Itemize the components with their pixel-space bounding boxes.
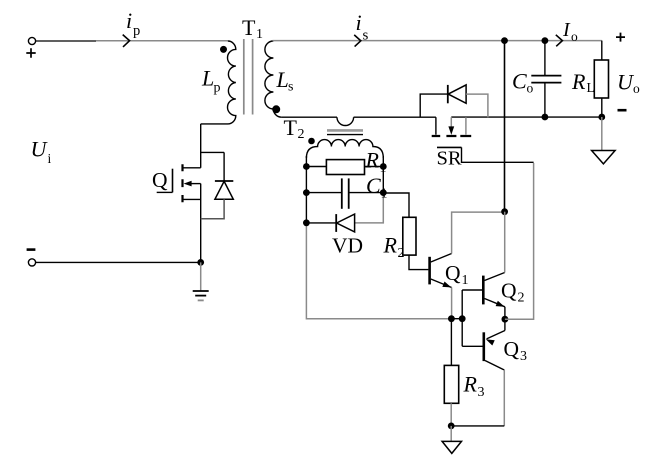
transistor Q2 — [462, 273, 505, 310]
label R2 — [383, 232, 405, 260]
wire input bottom — [36, 261, 201, 263]
transformer T2 core — [327, 129, 363, 132]
junction dot R3 bottom — [448, 423, 455, 430]
svg-text:L: L — [276, 67, 289, 92]
svg-text:C: C — [512, 68, 527, 93]
label Q1 — [445, 261, 469, 288]
label T2 — [284, 115, 305, 142]
wire Q drain to body diode — [201, 151, 224, 153]
junction dot RL bottom — [598, 114, 605, 121]
svg-text:R: R — [383, 232, 398, 257]
T1 secondary phase dot — [272, 105, 280, 113]
label RL — [571, 69, 595, 95]
wire Lp bottom to Q drain — [200, 124, 202, 168]
capacitor Co — [531, 41, 561, 117]
junction dot right rail C1 — [380, 189, 387, 196]
label Q2 — [501, 279, 525, 306]
label Ls — [276, 67, 294, 95]
svg-text:Q: Q — [504, 337, 520, 361]
svg-text:SR: SR — [437, 148, 462, 170]
capacitor C1 — [306, 178, 383, 208]
junction dot Co top — [542, 37, 549, 44]
svg-text:1: 1 — [256, 27, 263, 42]
svg-text:3: 3 — [478, 385, 485, 400]
transformer T1 primary winding Lp — [201, 41, 236, 124]
wire plus rail to collectors — [504, 41, 506, 212]
svg-text:2: 2 — [518, 291, 525, 306]
input terminal negative — [27, 250, 36, 266]
svg-text:s: s — [288, 80, 293, 95]
svg-text:o: o — [527, 80, 534, 95]
svg-text:T: T — [242, 15, 256, 40]
mosfet Q — [157, 164, 201, 262]
svg-text:2: 2 — [298, 127, 305, 142]
svg-text:T: T — [284, 115, 298, 140]
wire Q2 collector up — [504, 212, 506, 273]
junction dot right rail R1 — [380, 163, 387, 170]
transformer T2 secondary winding — [306, 140, 383, 158]
svg-text:o: o — [571, 29, 578, 44]
resistor R1 — [306, 160, 383, 175]
svg-text:R: R — [365, 147, 380, 172]
svg-text:Q: Q — [152, 168, 168, 192]
svg-text:p: p — [214, 81, 221, 96]
mosfet SR — [432, 117, 472, 147]
label Ui — [31, 136, 52, 166]
junction dot left rail C1 — [303, 189, 310, 196]
junction dot collectors — [501, 208, 508, 215]
label Lp — [201, 66, 221, 96]
svg-text:U: U — [31, 136, 49, 161]
wire input top gray segment — [96, 40, 228, 42]
label Io — [562, 19, 578, 44]
svg-text:R: R — [463, 371, 478, 396]
junction node primary return — [197, 259, 204, 266]
label C1 — [366, 173, 388, 202]
right rail of snubber network — [382, 156, 384, 193]
svg-text:C: C — [366, 173, 381, 198]
current arrow is — [354, 35, 361, 47]
svg-text:Q: Q — [501, 279, 517, 303]
diode VD — [306, 214, 354, 232]
svg-text:i: i — [356, 10, 362, 35]
junction dot left rail VD — [303, 219, 310, 226]
svg-text:s: s — [363, 28, 369, 44]
T1 primary phase dot — [220, 46, 227, 53]
label plus output — [616, 33, 625, 42]
label R3 — [463, 371, 485, 400]
left rail gray lower part — [306, 223, 451, 319]
resistor R3 — [444, 319, 458, 426]
transformer T1 secondary winding Ls — [265, 41, 281, 117]
svg-text:p: p — [133, 23, 140, 39]
transformer T1 core — [244, 39, 253, 115]
wire Q2 emitter down — [504, 307, 506, 319]
label ip — [126, 8, 140, 39]
svg-text:VD: VD — [332, 233, 363, 257]
label Q3 — [504, 337, 528, 364]
svg-text:I: I — [562, 19, 571, 41]
body diode of Q — [201, 152, 234, 218]
junction dot collectors rail top — [501, 37, 508, 44]
label is — [356, 10, 369, 43]
svg-text:1: 1 — [462, 273, 469, 288]
wire Q1 emitter down — [451, 288, 453, 319]
T2 phase dot — [308, 138, 315, 145]
right rail gray lower part — [355, 193, 384, 223]
label Co — [512, 68, 534, 95]
svg-text:L: L — [201, 66, 214, 91]
wire secondary bottom — [281, 116, 337, 118]
ground under Q — [193, 262, 209, 300]
wire Q3 emitter to node — [504, 319, 506, 330]
junction dot emitters — [502, 316, 509, 323]
transistor Q1 — [430, 254, 453, 291]
wire C1 node to R2 — [383, 193, 409, 217]
svg-text:i: i — [48, 151, 52, 166]
left rail of snubber network — [305, 156, 307, 223]
wire output bottom rail — [451, 116, 602, 118]
wire Q1 collector up — [452, 212, 505, 253]
junction dot bases rail — [459, 315, 466, 322]
current arrow Io — [556, 35, 563, 47]
svg-text:R: R — [571, 69, 586, 94]
ground at output — [592, 117, 616, 164]
wire SR gate drive — [505, 163, 534, 319]
wire R2 to Q1 base — [409, 255, 428, 270]
wire bases rail — [451, 290, 462, 346]
svg-text:2: 2 — [398, 246, 405, 261]
wire secondary top rail — [273, 40, 602, 42]
transistor Q3 — [462, 331, 505, 371]
resistor RL — [594, 41, 608, 117]
svg-text:o: o — [633, 81, 640, 96]
resistor R2 — [403, 217, 416, 255]
label R1 — [365, 147, 387, 176]
diode across SR — [420, 85, 488, 117]
svg-text:3: 3 — [520, 349, 527, 364]
junction dot Co bottom — [542, 114, 549, 121]
svg-text:i: i — [126, 8, 132, 33]
current arrow ip — [123, 35, 130, 47]
label T1 — [242, 15, 263, 42]
label minus output — [618, 109, 627, 112]
ground under R3 — [442, 426, 461, 454]
transformer T2 primary turn — [337, 117, 354, 125]
junction dot left rail R1 — [303, 163, 310, 170]
label Uo — [617, 69, 640, 96]
svg-text:Q: Q — [445, 261, 461, 285]
wire Q3 collector down — [503, 370, 505, 426]
svg-text:L: L — [587, 80, 595, 95]
input terminal positive — [26, 37, 35, 57]
wire secondary bottom to SR — [354, 116, 436, 118]
junction dot node R3 top — [448, 315, 455, 322]
svg-text:1: 1 — [381, 187, 388, 202]
wire input top — [36, 40, 96, 42]
